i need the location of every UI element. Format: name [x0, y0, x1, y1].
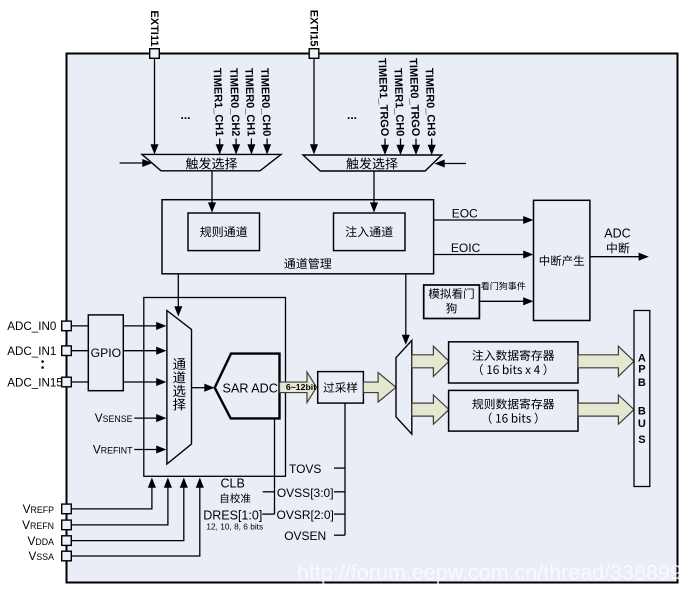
- block 中断产生 interrupt generation: [534, 200, 590, 320]
- label 看门狗事件 watchdog event: [481, 282, 525, 290]
- label OVSR[2:0]: [277, 508, 334, 522]
- wire ADC_IN1 to GPIO: [71, 350, 88, 352]
- svg-text:GPIO: GPIO: [91, 346, 121, 360]
- ellipsis left trigger group: [181, 108, 191, 122]
- bus arrow mux to injected register: [412, 346, 449, 376]
- svg-text:...: ...: [347, 108, 357, 122]
- svg-text:EXTI11: EXTI11: [148, 10, 160, 46]
- svg-text:TIMER1_CH0: TIMER1_CH0: [391, 68, 405, 137]
- pad EXTI15: [309, 49, 319, 59]
- label TIMER1_TRGO: [376, 58, 391, 137]
- node OVSR tick: [334, 513, 345, 515]
- block 注入数据寄存器 injected data register: [449, 342, 578, 383]
- svg-text:VREFINT: VREFINT: [93, 442, 133, 456]
- svg-text:...: ...: [181, 108, 191, 122]
- label ADC: [604, 227, 630, 241]
- wire EXTI15 to trigger mux: [310, 58, 318, 154]
- ellipsis ADC_IN dots: [41, 360, 44, 369]
- label TOVS: [289, 462, 321, 476]
- label TIMER1_CH0: [391, 68, 405, 137]
- output mux: [396, 340, 412, 434]
- pad VDDA: [62, 536, 72, 546]
- wire channel mgmt to channel select: [174, 274, 182, 317]
- svg-text:ADC_IN15: ADC_IN15: [7, 376, 62, 389]
- label OVSEN: [284, 529, 326, 543]
- label VREFINT: [93, 442, 133, 456]
- wire TIMER0_CH3 to trigger mux: [428, 139, 436, 156]
- svg-text:EOIC: EOIC: [451, 241, 481, 255]
- label EOIC: [451, 241, 481, 255]
- wire ADC_IN0 to GPIO: [71, 325, 88, 327]
- block GPIO: [88, 315, 123, 391]
- label EXTI15: [307, 10, 319, 47]
- wire SAR calibration line: [274, 418, 276, 514]
- label ADC_IN1: [7, 345, 56, 358]
- wire left mux to regular channel: [208, 171, 216, 213]
- label VREFP: [23, 502, 54, 516]
- bus arrow injected register to APB: [578, 346, 634, 376]
- wire TIMER0_TRGO to trigger mux: [412, 139, 420, 156]
- wire ADC interrupt out: [590, 253, 649, 261]
- node OVSEN tick: [334, 534, 345, 536]
- svg-text:DRES[1:0]: DRES[1:0]: [203, 508, 262, 522]
- svg-text:TIMER0_CH3: TIMER0_CH3: [423, 68, 437, 137]
- wire TIMER1_TRGO to trigger mux: [381, 139, 389, 156]
- label TIMER0_CH3: [423, 68, 437, 137]
- svg-text:S: S: [638, 434, 645, 446]
- pad EXTI11: [150, 49, 160, 59]
- pad ADC_IN1: [62, 346, 72, 356]
- wire EOIC: [434, 250, 534, 258]
- svg-text:OVSR[2:0]: OVSR[2:0]: [277, 508, 334, 522]
- bus arrow oversampler to output mux: [363, 373, 396, 403]
- wire watchdog event: [479, 297, 533, 305]
- svg-text:TIMER0_CH2: TIMER0_CH2: [227, 68, 241, 137]
- block SAR ADC converter: [215, 354, 280, 419]
- block 注入通道 injected channel: [334, 213, 406, 251]
- label VDDA: [28, 534, 55, 548]
- svg-text:6~12bit: 6~12bit: [286, 382, 316, 392]
- block APB BUS: [634, 311, 650, 487]
- wire VREFN: [71, 478, 172, 525]
- svg-text:P: P: [638, 364, 645, 376]
- pad VSSA: [62, 551, 72, 561]
- wire VSENSE to channel mux: [134, 414, 166, 422]
- pad ADC_IN0: [62, 321, 72, 331]
- block 通道管理 channel management: [162, 200, 434, 274]
- wire TIMER0_CH2 to trigger mux: [232, 139, 240, 155]
- wire GPIO ch0 to channel mux: [123, 322, 166, 330]
- label DRES resolutions: [206, 521, 263, 531]
- bus arrow regular register to APB: [578, 395, 634, 424]
- svg-text:VSENSE: VSENSE: [95, 411, 133, 425]
- trigger mux 触发选择 (injected): [303, 155, 442, 171]
- pad ADC_IN15: [62, 377, 72, 387]
- wire TIMER0_CH1 to trigger mux: [247, 139, 255, 155]
- svg-text:TIMER1_CH1: TIMER1_CH1: [211, 68, 225, 137]
- wire TIMER0_CH0 to trigger mux: [263, 139, 271, 155]
- label TIMER0_TRGO: [407, 58, 422, 137]
- block 规则通道 regular channel: [188, 213, 260, 251]
- svg-text:http://forum.eepw.com.cn/threa: http://forum.eepw.com.cn/thread/3388997: [297, 561, 689, 585]
- svg-text:EOC: EOC: [452, 207, 478, 221]
- svg-text:A: A: [638, 352, 646, 364]
- label 自校准 self calibration: [221, 493, 251, 503]
- wire TIMER1_CH0 to trigger mux: [396, 139, 404, 156]
- wire channel mux to SAR ADC: [192, 384, 215, 392]
- bus arrow mux to regular register: [412, 395, 449, 424]
- svg-text:OVSEN: OVSEN: [284, 529, 326, 543]
- svg-text:ADC_IN1: ADC_IN1: [7, 345, 56, 358]
- channel mux 通道选择 channel selection: [167, 311, 192, 465]
- svg-text:VREFP: VREFP: [23, 502, 54, 516]
- trigger mux 触发选择 (regular): [142, 154, 281, 170]
- wire external trigger into left mux: [120, 159, 153, 167]
- label VSSA: [29, 549, 55, 563]
- wire EOC: [434, 216, 534, 224]
- label 中断: [607, 242, 629, 253]
- pad VREFP: [62, 504, 72, 514]
- svg-text:TIMER0_CH0: TIMER0_CH0: [258, 68, 272, 137]
- wire injected data to output mux: [402, 274, 410, 345]
- svg-text:ADC_IN0: ADC_IN0: [7, 320, 56, 333]
- wire TIMER1_CH1 to trigger mux: [216, 139, 224, 155]
- node CLB tick: [263, 491, 275, 493]
- label VREFN: [22, 518, 54, 532]
- wire VDDA: [71, 478, 188, 541]
- svg-text:ADC: ADC: [604, 227, 630, 241]
- block 过采样 oversampler: [318, 372, 364, 404]
- label CLB: [221, 477, 245, 491]
- wire EXTI11 to trigger mux: [150, 58, 158, 154]
- svg-text:VSSA: VSSA: [29, 549, 55, 563]
- node TOVS tick: [334, 467, 345, 469]
- label ADC_IN15: [7, 376, 62, 389]
- svg-text:EXTI15: EXTI15: [307, 10, 319, 47]
- label DRES[1:0]: [203, 508, 262, 522]
- svg-text:VDDA: VDDA: [28, 534, 55, 548]
- watermark: [297, 561, 689, 585]
- pad VREFN: [62, 520, 72, 530]
- label TIMER0_CH1: [242, 68, 256, 137]
- svg-text:B: B: [638, 406, 646, 418]
- wire external trigger into right mux: [435, 159, 467, 167]
- svg-text:U: U: [638, 418, 646, 430]
- ellipsis right trigger group: [347, 108, 357, 122]
- block analog front container: [144, 298, 286, 477]
- bus arrow 6~12bit SAR to oversampler: [280, 372, 317, 403]
- label EOC: [452, 207, 478, 221]
- svg-text:12, 10, 8, 6 bits: 12, 10, 8, 6 bits: [206, 521, 263, 531]
- label OVSS[3:0]: [277, 486, 334, 500]
- node DRES tick: [262, 513, 274, 515]
- wire GPIO ch1 to channel mux: [123, 347, 166, 355]
- label ADC_IN0: [7, 320, 56, 333]
- svg-text:CLB: CLB: [221, 477, 245, 491]
- wire right mux to injected channel: [370, 171, 378, 213]
- label VSENSE: [95, 411, 133, 425]
- block 规则数据寄存器 regular data register: [449, 390, 578, 431]
- label TIMER0_CH2: [227, 68, 241, 137]
- wire ADC_IN15 to GPIO: [71, 381, 88, 383]
- svg-text:VREFN: VREFN: [22, 518, 54, 532]
- frame ADC module boundary: [67, 54, 678, 583]
- wire VREFINT to channel mux: [134, 445, 166, 453]
- label EXTI11: [148, 10, 160, 46]
- wire oversampler config line: [344, 403, 346, 535]
- label TIMER1_CH1: [211, 68, 225, 137]
- svg-text:B: B: [638, 377, 646, 389]
- wire VREFP: [71, 478, 156, 509]
- svg-text:SAR ADC: SAR ADC: [223, 381, 278, 395]
- node OVSS tick: [334, 491, 345, 493]
- block 模拟看门狗 analog watchdog: [424, 285, 480, 319]
- svg-text:TOVS: TOVS: [289, 462, 321, 476]
- wire VSSA: [71, 478, 204, 557]
- label TIMER0_CH0: [258, 68, 272, 137]
- svg-text:OVSS[3:0]: OVSS[3:0]: [277, 486, 334, 500]
- svg-text:TIMER0_CH1: TIMER0_CH1: [242, 68, 256, 137]
- wire GPIO ch15 to channel mux: [123, 378, 166, 386]
